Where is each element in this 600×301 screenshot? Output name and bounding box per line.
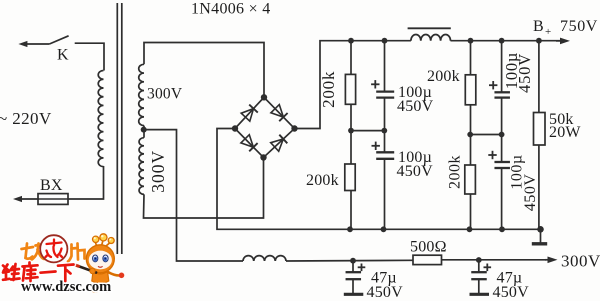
rail node at 200k R2a bbox=[468, 38, 474, 44]
capacitor C4 47µ bbox=[478, 260, 480, 272]
plus sign C4 bbox=[484, 266, 492, 268]
svg-text:450V: 450V bbox=[397, 163, 434, 180]
bridge right node bbox=[291, 125, 297, 131]
svg-text:450V: 450V bbox=[367, 284, 404, 301]
svg-text:500Ω: 500Ω bbox=[410, 239, 447, 256]
resistor 200k R1b bbox=[345, 164, 355, 191]
wire C2b to bus bbox=[501, 168, 503, 229]
wire 500 ohm to output bbox=[442, 259, 547, 261]
wire primary bottom to fuse bbox=[68, 166, 104, 199]
wire C2a to midpoint bbox=[501, 98, 503, 135]
diode D3 (left to bottom) bbox=[241, 135, 254, 148]
wire R1b to bus bbox=[350, 191, 352, 230]
mascot right arm bbox=[108, 272, 120, 276]
capacitor C3 47µ bbox=[352, 261, 354, 273]
resistor 200k R2b bbox=[465, 165, 476, 194]
bus node under R2b bbox=[467, 226, 473, 232]
resistor 200k R2a bbox=[465, 75, 476, 105]
mascot antenna stalks bbox=[95, 240, 110, 248]
wire C1a to midpoint bbox=[384, 98, 386, 131]
wire R1a to midpoint bbox=[350, 104, 352, 130]
wire rail to C1a bbox=[384, 41, 386, 92]
diode D2 (top to right) bbox=[271, 105, 284, 118]
wire 50k to bus bbox=[538, 145, 540, 229]
bus node under C2b bbox=[499, 226, 505, 232]
watermark glyph 片 bbox=[68, 244, 85, 262]
svg-text:450V: 450V bbox=[397, 98, 434, 115]
filter choke winding bbox=[411, 35, 451, 41]
watermark magnifier ring bbox=[40, 235, 67, 262]
capacitor C2b plates bbox=[494, 161, 510, 163]
bridge edge wires bbox=[235, 97, 295, 157]
svg-text:+: + bbox=[545, 26, 551, 38]
mains arrow (bottom neutral lead) bbox=[19, 198, 39, 200]
B+ arrow bbox=[556, 40, 564, 42]
node at C4 bbox=[476, 257, 482, 263]
ground C4 bbox=[478, 279, 480, 293]
mascot body bbox=[92, 272, 109, 284]
svg-text:450V: 450V bbox=[493, 284, 530, 301]
svg-text:www.dzsc.com: www.dzsc.com bbox=[21, 279, 111, 295]
bridge bottom node bbox=[260, 154, 266, 160]
capacitor C1b plates bbox=[376, 151, 394, 153]
svg-text:450V: 450V bbox=[515, 53, 534, 93]
wire rail to 50k bbox=[538, 41, 540, 113]
wire inductor to 500 ohm bbox=[286, 259, 413, 262]
wire R2b to bus bbox=[470, 194, 472, 229]
wire bridge negative to ground bus bbox=[217, 129, 541, 230]
wire switch to transformer primary bbox=[75, 43, 104, 70]
wire centre tap to output rail bbox=[144, 130, 243, 261]
wire midpoint to R1b bbox=[350, 131, 352, 164]
wire R2a to midpoint bbox=[470, 105, 472, 135]
capacitor C2a plates bbox=[494, 91, 510, 93]
wire midpoint to R2b bbox=[470, 135, 472, 166]
secondary winding lower 300V bbox=[143, 130, 145, 138]
midpoint node right-b bbox=[499, 132, 505, 138]
transformer primary winding bbox=[98, 71, 103, 167]
mascot antenna balls bbox=[93, 234, 115, 244]
svg-text:300V: 300V bbox=[148, 150, 168, 193]
rail node at 50k bbox=[536, 38, 542, 44]
svg-text:1N4006 × 4: 1N4006 × 4 bbox=[191, 1, 271, 18]
svg-text:750V: 750V bbox=[560, 18, 598, 35]
diode D1 (left to top) bbox=[241, 109, 253, 122]
svg-text:450V: 450V bbox=[522, 174, 539, 212]
plus sign C3 bbox=[358, 266, 366, 268]
svg-text:200k: 200k bbox=[427, 68, 460, 85]
wire winding to centre tap bbox=[143, 126, 145, 130]
svg-text:200k: 200k bbox=[319, 71, 338, 108]
resistor 50k 20W bbox=[534, 113, 546, 146]
watermark text 维库一下 bbox=[3, 263, 74, 282]
300V output arrow bbox=[545, 259, 552, 261]
bridge top node bbox=[261, 94, 267, 100]
secondary winding upper 300V bbox=[139, 64, 144, 125]
filter choke core line bbox=[408, 27, 451, 29]
plus sign C1a bbox=[371, 83, 379, 85]
diode D4 (bottom to right) bbox=[271, 139, 284, 151]
bus node under C1b bbox=[381, 226, 387, 232]
mascot left arm with pen bbox=[78, 266, 96, 273]
svg-text:200k: 200k bbox=[306, 172, 339, 189]
mascot head bbox=[86, 245, 114, 273]
wire secondary top to bridge bbox=[144, 43, 264, 98]
watermark glyph 找 bbox=[22, 244, 45, 261]
midpoint node left-a bbox=[348, 128, 354, 134]
svg-text:200k: 200k bbox=[446, 155, 463, 189]
bridge left node bbox=[232, 125, 238, 131]
wire choke to B+ arrow bbox=[451, 40, 561, 42]
plus sign C1b bbox=[372, 145, 380, 147]
svg-text:BX: BX bbox=[40, 177, 63, 194]
ground C3 bbox=[352, 279, 354, 293]
node at C3 bbox=[350, 258, 356, 264]
plus sign C2b bbox=[488, 154, 496, 156]
rail node at C2a bbox=[499, 38, 505, 44]
svg-text:B: B bbox=[533, 18, 544, 35]
centre tap node bbox=[141, 127, 147, 133]
resistor 500Ω bbox=[413, 255, 442, 264]
capacitor C1a plates bbox=[376, 90, 394, 92]
mid rail right bbox=[470, 134, 501, 136]
wire rail to 200k R1a bbox=[350, 41, 352, 75]
rail node at C1a branch bbox=[382, 38, 388, 44]
svg-text:300V: 300V bbox=[147, 86, 183, 103]
plus sign C2a bbox=[489, 84, 497, 86]
rail node at 200k branch bbox=[348, 38, 354, 44]
mascot face bbox=[89, 251, 112, 270]
bus node under R1b bbox=[347, 226, 353, 232]
mid rail left bbox=[351, 130, 384, 132]
svg-text:300V: 300V bbox=[561, 252, 600, 271]
svg-text:20W: 20W bbox=[549, 124, 581, 141]
midpoint node left-b bbox=[381, 128, 387, 134]
wire bridge positive to B+ rail bbox=[295, 41, 411, 129]
bus node at ground bbox=[537, 226, 544, 233]
midpoint node right-a bbox=[467, 132, 473, 138]
wire midpoint to C2b bbox=[501, 135, 503, 163]
wire rail to C2a bbox=[501, 41, 503, 93]
mains arrow (top phase lead) bbox=[24, 43, 49, 45]
wire midpoint to C1b bbox=[384, 131, 386, 153]
fuse BX bbox=[38, 194, 68, 205]
svg-text:K: K bbox=[57, 47, 69, 64]
mascot legs bbox=[96, 284, 106, 289]
transformer core bbox=[116, 3, 118, 254]
mascot mouth bbox=[98, 266, 103, 267]
wire C1b to bus bbox=[384, 159, 386, 230]
svg-text:~ 220V: ~ 220V bbox=[0, 109, 52, 128]
mascot eyes bbox=[93, 255, 109, 262]
resistor 200k R1a bbox=[345, 74, 355, 104]
ground symbol bbox=[540, 229, 542, 242]
output filter inductor bbox=[243, 256, 286, 261]
wire lower winding to bridge bottom bbox=[144, 158, 264, 219]
watermark glyph 芯 in magnifier bbox=[46, 240, 63, 258]
switch K blade bbox=[49, 36, 68, 44]
wire rail to R2a bbox=[470, 41, 472, 75]
